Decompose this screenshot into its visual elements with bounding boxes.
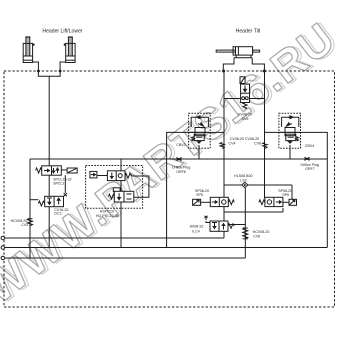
svg-text:CBV3: CBV3 [176,143,185,147]
wire: SP6 bottom drop [282,208,284,212]
wire: CV3 branch x30 [29,159,31,258]
svg-text:DC3: DC3 [54,212,61,216]
svg-text:SPCL1: SPCL1 [53,181,64,185]
wire: SPCL1 to DC3 link [64,175,66,193]
wire: LS2 line [224,184,292,186]
wire: CBV3 pilot x167 [167,132,224,247]
solenoid valve SP5 [193,197,235,206]
svg-text:SV08-20: SV08-20 [238,112,252,116]
proportional valve SPCL1 [36,166,78,175]
wire: DC3 feed [30,199,38,201]
wire: SV8 cross line [224,98,265,100]
manifold boundary [4,71,335,307]
cylinder CYL3 Header Tilt [216,47,264,71]
counterbalance valve CBV3 [189,113,211,148]
node: port T [1,246,5,250]
node: tilt junction R [263,70,266,73]
svg-text:LS2: LS2 [240,179,246,183]
wire: CBV4 drain [289,145,291,159]
svg-text:HLS08.B30: HLS08.B30 [234,174,252,178]
logic valve ILC4 [204,216,234,232]
svg-text:Header Lift/Lower: Header Lift/Lower [42,28,83,34]
check valve CV4 [220,143,224,149]
wire: CV6 line x245 [244,188,246,258]
compensator valve [113,188,120,192]
svg-text:CV3: CV3 [21,223,28,227]
cylinder CYL1 Header Lift L [23,37,34,63]
node: port P [1,236,5,240]
wire: lift merge [38,71,60,76]
wire: bus LS y258 [4,257,245,259]
svg-text:CV4: CV4 [229,142,236,146]
counterbalance valve CBV4 [279,113,301,148]
wire: bus T y247.5 [4,247,327,249]
wire: tilt B line x264.5 [264,71,266,198]
wire: compensator branch x121 [120,159,122,248]
node: lift junction L [37,70,40,73]
svg-text:HCV08-20: HCV08-20 [253,230,270,234]
valve DC3 [38,193,67,207]
shuttle valve LS2 [242,182,248,187]
solenoid valve SP6 [259,197,297,206]
svg-text:ILC4: ILC4 [192,230,200,234]
cylinder CYL2 Header Lift R [64,37,75,63]
stand [235,55,237,58]
wire: CBV3 through line [189,131,210,133]
wire: lift cyl L port [33,62,39,71]
wire: tilt A line x224 [223,71,225,238]
svg-text:SV5: SV5 [242,117,249,121]
wire: SP6 sol drop [291,185,293,200]
wire: CBV4 pilot x327 [265,132,328,247]
wire: ASPCC6 loop [132,176,149,197]
wire: long manifold line y159 [30,158,327,160]
node: tilt junction L [222,70,225,73]
svg-text:ORF7: ORF7 [305,167,315,171]
svg-text:D008-32: D008-32 [190,225,204,229]
wire: CBV3 drain [198,145,200,159]
wire: lift cyl R port [60,62,66,71]
orifice ORF6 [177,158,182,161]
wire: drain y212 [224,211,283,213]
check valve CV8 [263,143,267,149]
svg-text:ORF6: ORF6 [176,170,186,174]
svg-text:CBV4: CBV4 [305,144,314,148]
orifice ORF7 [305,157,310,160]
compensator assembly ASPCC6 [86,166,149,209]
svg-text:CV8: CV8 [254,142,261,146]
wire: CBV4 through line [279,131,300,133]
svg-text:ASPCC6: ASPCC6 [100,210,114,214]
wire: ILC4 spring link [229,224,245,226]
svg-text:CV6: CV6 [253,235,260,239]
node: lift junction R [59,70,62,73]
check valve CV6 [243,228,248,239]
wire: bus P y238 [4,237,224,239]
svg-text:Header Tilt: Header Tilt [236,28,261,34]
svg-text:HQ-PSC10-36: HQ-PSC10-36 [96,214,119,218]
check valve CV3 [28,219,33,226]
solenoid valve SV5 [240,77,250,109]
wire: lift main drop [48,76,50,247]
svg-text:SP5: SP5 [196,193,203,197]
svg-text:CV08-20 CV08-20: CV08-20 CV08-20 [230,137,259,141]
svg-text:SP6: SP6 [282,193,289,197]
node: port LS [1,256,5,260]
